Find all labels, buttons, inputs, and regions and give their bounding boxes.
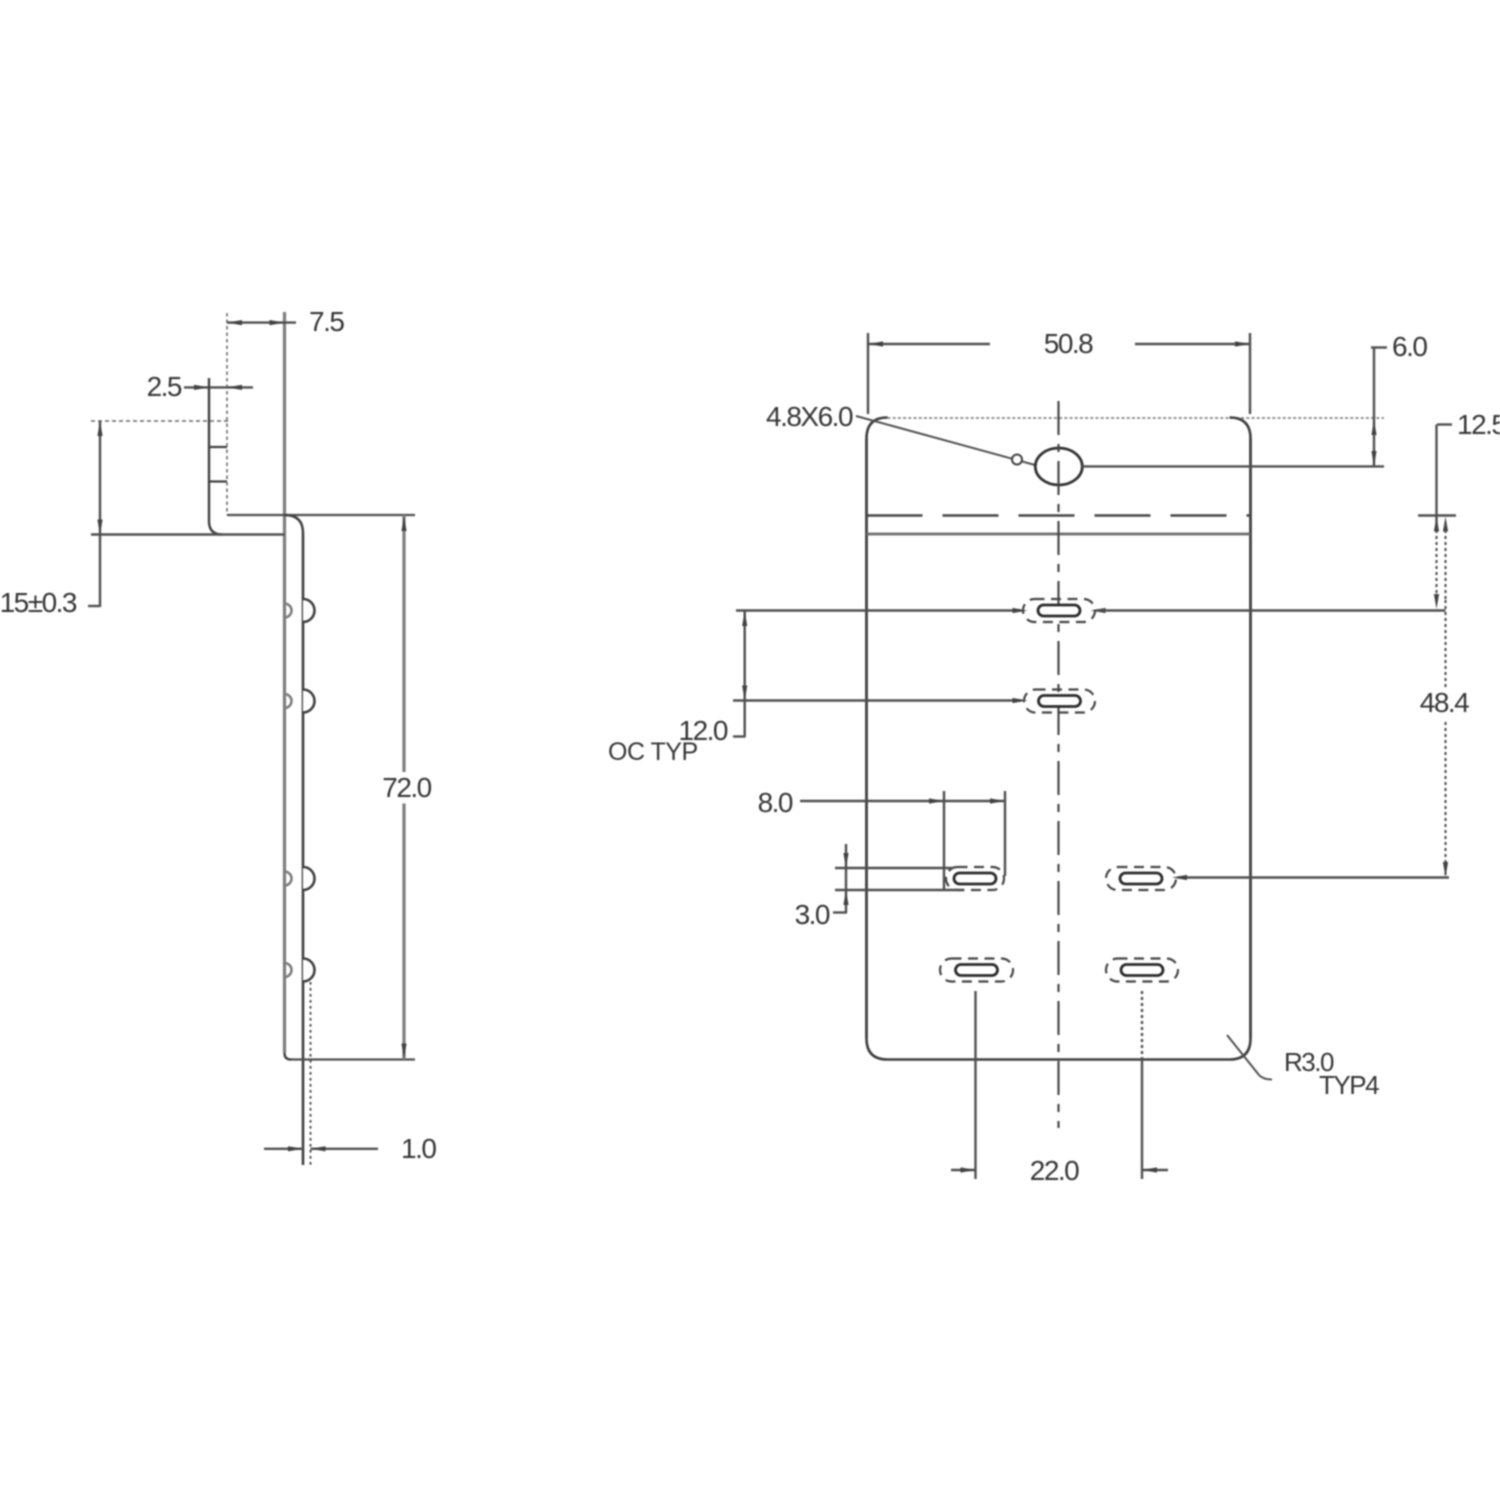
svg-text:7.5: 7.5 — [309, 306, 344, 337]
front view: corner arc top-left — [867, 418, 888, 439]
side view: bend curve into plate right face — [285, 515, 304, 533]
label R3.0 leader line — [1227, 1035, 1259, 1075]
dimension 1.0 line right — [311, 1148, 379, 1150]
dimension 7.5 right arrow — [270, 320, 285, 325]
side view: louver bump small row1 — [285, 604, 292, 618]
svg-text:12.5: 12.5 — [1457, 409, 1500, 440]
front view: corner arc top-right — [1230, 418, 1251, 439]
svg-text:22.0: 22.0 — [1030, 1155, 1079, 1186]
side view: bottom corner arc — [285, 1053, 292, 1060]
front view: plate top edge (tab tip, hidden dashed) with extension to 6.0 dim — [888, 417, 1385, 419]
dimension 3.0 foot — [833, 911, 847, 913]
label 4.8X6.0 leader line — [856, 416, 1035, 465]
dimension 12.0 up arrow — [742, 611, 747, 626]
row4 left slot extension line — [974, 991, 976, 1179]
side view: tab rung upper — [209, 446, 227, 448]
svg-text:48.4: 48.4 — [1420, 687, 1469, 718]
dimension 3.0 bottom reference — [835, 889, 964, 891]
dimension 8.0 left arrow — [929, 798, 944, 803]
dimension 12.0 line — [744, 611, 746, 738]
dimension 12.5 up arrow — [1434, 517, 1439, 532]
front view: plate outline left edge — [865, 439, 868, 1039]
front view: terminal slot row4 left — [956, 965, 998, 976]
label 4.8X6.0 leader loop — [1012, 455, 1022, 465]
row1 right extension arrow — [1091, 608, 1106, 613]
side view: extension line for 7.5 (tab inner face, hidden) — [226, 313, 228, 515]
dimension 12.0 foot — [733, 735, 746, 737]
row3 right extension arrow — [1172, 875, 1187, 880]
dimension 6.0 down arrow — [1371, 451, 1376, 466]
front view: vertical center line (dash-dot) — [1057, 401, 1059, 1128]
dimension 50.8 line left segment — [868, 343, 990, 345]
side view: louver bump small row2 — [285, 694, 292, 708]
dimension 15±0.3 line — [99, 421, 101, 607]
front view: hole horizontal line to 6.0 extension — [1082, 465, 1384, 467]
side view: leg top surface line / 72.0 top extension — [227, 514, 415, 516]
side view: louver bump large row2 — [303, 690, 315, 713]
dimension 3.0 line — [845, 844, 847, 913]
front view: terminal slot row3 right — [1120, 873, 1162, 884]
front view: bend line inner (long dashed) — [867, 514, 1251, 516]
dimension 72.0 down arrow — [401, 1044, 406, 1059]
dimension 22.0 line left — [951, 1169, 976, 1171]
front view: terminal slot row3 left — [954, 873, 996, 884]
side view: tab rung lower — [209, 480, 227, 482]
dimension 48.4 down arrow — [1443, 862, 1448, 877]
front view: plate bottom edge — [888, 1058, 1230, 1061]
svg-text:2.5: 2.5 — [147, 371, 182, 402]
dimension 48.4 line mid — [1444, 600, 1446, 687]
dimension 12.0 down arrow — [742, 686, 747, 701]
side view: louver bump large row1 — [303, 599, 315, 622]
dimension 7.5 line — [227, 321, 296, 323]
front view: slot clearance outline (dash-dot) row4 right — [1106, 959, 1178, 982]
row1 left extension line — [736, 609, 1021, 611]
dimension 12.5 down arrow — [1434, 594, 1439, 609]
dimension 72.0 up arrow — [401, 516, 406, 531]
dimension 22.0 right arrow — [1142, 1167, 1157, 1172]
dimension 48.4 line dotted upper — [1444, 524, 1446, 600]
row4 right slot extension line dotted part — [1141, 991, 1143, 1059]
dimension 2.5 left arrow (tip at 209) — [194, 385, 209, 390]
dimension 15±0.3 foot — [88, 605, 100, 607]
svg-text:50.8: 50.8 — [1044, 328, 1093, 359]
svg-text:TYP4: TYP4 — [1319, 1070, 1379, 1100]
dimension 3.0 upper arrow — [843, 853, 848, 868]
dimension 22.0 line right — [1142, 1169, 1168, 1171]
side view: louver bump small row4 — [285, 963, 292, 977]
svg-text:72.0: 72.0 — [382, 772, 431, 803]
dimension 50.8 left extension — [867, 333, 869, 414]
svg-text:6.0: 6.0 — [1392, 331, 1427, 362]
front view: corner arc bottom-left — [867, 1039, 888, 1060]
front view: mounting hole 4.8X6.0 — [1035, 448, 1082, 485]
svg-text:15±0.3: 15±0.3 — [0, 587, 77, 618]
front view: slot clearance outline (dash-dot) row2 center — [1024, 690, 1095, 713]
row1 right extension line — [1096, 609, 1446, 611]
side view: main plate front face / 7.5 extension line — [283, 312, 286, 1053]
side view: louver bump large row4 — [303, 959, 315, 982]
dimension 48.4 top reference tick — [1418, 514, 1456, 516]
dimension 12.5 foot — [1437, 423, 1452, 425]
front view: slot clearance outline (dash-dot) row3 right — [1106, 867, 1176, 890]
dimension 22.0 left arrow — [961, 1167, 976, 1172]
front view: corner arc bottom-right — [1230, 1039, 1251, 1060]
dimension 1.0 right arrow — [311, 1146, 326, 1151]
dimension 2.5 right arrow (tip at 227) — [227, 385, 242, 390]
dimension 50.8 right arrow — [1235, 341, 1250, 346]
front view: terminal slot row4 right — [1121, 965, 1163, 976]
dimension 2.5 line — [184, 386, 253, 388]
dimension 15±0.3 down arrow — [97, 520, 102, 535]
svg-text:4.8X6.0: 4.8X6.0 — [766, 401, 853, 432]
dimension 7.5 left arrow — [227, 320, 242, 325]
front view: slot clearance outline (dash-dot) row3 left — [946, 867, 1004, 890]
dimension 6.0 up arrow — [1371, 420, 1376, 435]
dimension 50.8 line right segment — [1135, 343, 1250, 345]
front view: terminal slot row2 center — [1039, 696, 1081, 707]
side view: louver bump small row3 — [285, 872, 292, 886]
dimension 12.5 line dotted middle — [1435, 524, 1437, 600]
dimension 48.4 up arrow — [1443, 517, 1448, 532]
side view: tab left face with bend into bottom leg — [209, 378, 222, 535]
svg-text:OC TYP: OC TYP — [608, 738, 698, 766]
front view: slot clearance outline (dash-dot) row1 center — [1023, 599, 1095, 622]
dimension 50.8 right extension — [1249, 333, 1251, 414]
side view: plate rear face (solid) — [302, 533, 305, 1165]
dimension 1.0 line left — [264, 1148, 303, 1150]
dimension 8.0 line — [800, 800, 1005, 802]
svg-text:3.0: 3.0 — [795, 899, 830, 930]
dimension 8.0 right extension — [1004, 791, 1006, 876]
row2 left extension arrow — [1013, 698, 1028, 703]
front view: plate outline right edge — [1249, 439, 1252, 1039]
side view: leg bottom surface line / 15 extension — [91, 533, 285, 535]
row1 left extension arrow — [1013, 608, 1028, 613]
front view: bend line outer (solid) — [867, 533, 1251, 536]
side view: tab top edge (hidden, dashed) — [91, 420, 228, 422]
dimension 12.5 line upper — [1435, 425, 1437, 525]
dimension 15±0.3 up arrow — [97, 421, 102, 436]
row2 left extension line — [733, 699, 1021, 701]
svg-text:8.0: 8.0 — [758, 787, 793, 818]
dimension 50.8 left arrow — [868, 341, 883, 346]
label R3.0 leader hook — [1259, 1075, 1272, 1080]
front view: slot clearance outline (dash-dot) row4 left — [940, 959, 1013, 982]
row3 right extension line — [1178, 876, 1449, 878]
dimension 8.0 right arrow — [990, 798, 1005, 803]
dimension 1.0 left arrow — [288, 1146, 303, 1151]
dimension 8.0 left extension — [943, 791, 945, 889]
front view: terminal slot row1 center — [1038, 605, 1080, 616]
side view: plate rear hidden line (dotted) — [310, 982, 312, 1165]
dimension 72.0 line lower segment — [402, 804, 405, 1060]
svg-text:1.0: 1.0 — [401, 1133, 436, 1164]
side view: bottom edge / 72.0 bottom extension — [291, 1058, 415, 1060]
dimension 6.0 foot — [1371, 346, 1387, 348]
dimension 6.0 line — [1373, 348, 1375, 467]
row4 right slot extension line solid part — [1141, 1059, 1143, 1179]
side view: louver bump large row3 — [303, 867, 315, 890]
dimension 3.0 top reference — [835, 867, 953, 869]
dimension 48.4 line lower — [1444, 722, 1446, 878]
dimension 3.0 lower arrow — [843, 890, 848, 905]
dimension 72.0 line upper segment — [402, 515, 405, 772]
